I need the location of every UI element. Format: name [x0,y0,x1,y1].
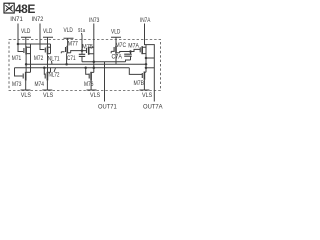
label M7A [128,43,139,50]
label VLS 1 [21,92,32,99]
svg-text:VLD: VLD [111,29,120,36]
dashed block border [9,40,161,91]
wire OUT71 [104,62,106,102]
svg-text:M71: M71 [12,55,22,62]
label M77 [68,41,78,48]
svg-text:IN7A: IN7A [140,17,151,24]
svg-text:OUT71: OUT71 [98,104,117,111]
wire M7C source down [115,53,117,64]
junction dot B-rail [93,67,96,70]
wire rail to OUT7A y58 [146,57,154,59]
label VLD 3 [64,27,73,34]
wire IN7A [145,24,155,102]
svg-text:NL71: NL71 [48,55,60,62]
label VLD 2 [43,28,52,35]
junction dot C7A top [129,50,132,53]
label C71 [67,55,76,62]
wire rail to OUT7A y67.8 [146,67,154,69]
transistor M7A [139,47,141,52]
wire M71 channel to node [25,55,27,72]
transistor M77 [61,52,64,54]
transistor M73 [15,68,23,76]
VLD supply T-bar 3 [64,38,74,46]
VLD supply T-bar 1 [21,37,31,46]
svg-text:M7C: M7C [116,42,127,49]
node line B NL72 y67.8 [15,67,130,69]
VLS T-bar 1 [21,89,31,91]
leader NL72 [54,68,56,72]
svg-text:VLD: VLD [43,28,52,35]
leader NL71 [51,61,54,64]
svg-text:M73: M73 [12,81,22,88]
capacitor C71 [79,54,85,56]
junction dot rail-67.8 [145,67,148,70]
svg-text:IN71: IN71 [10,16,23,23]
svg-text:VLD: VLD [21,28,30,35]
label VLS 4 [142,92,153,99]
label IN71 [10,16,23,23]
svg-text:VLS: VLS [21,92,32,99]
transistor M7B [141,73,143,78]
svg-text:C7A: C7A [112,54,123,61]
svg-text:VLS: VLS [43,92,54,99]
junction dot rail-58 [145,57,148,60]
junction dot M75 gate [81,49,84,52]
wire M7B gate feed [129,68,142,75]
junction dot W1-rail [93,61,96,64]
label VLD 1 [21,28,30,35]
wire M7C drain to M7A gate [120,49,140,52]
wire M7A rail [145,45,147,73]
transistor M75 [86,48,88,53]
svg-text:M7A: M7A [128,43,139,50]
label M73 [12,81,22,88]
label M7C [116,42,127,49]
leader 91a [81,33,84,36]
VLS T-bar 2 [42,89,52,91]
node line A NL71 y64.2 [26,63,146,65]
transistor M7C [111,51,113,53]
label M7B [134,80,145,87]
junction dot A-left [25,63,28,66]
label OUT71 [98,104,117,111]
label M71 [12,55,22,62]
svg-text:C71: C71 [67,55,76,62]
transistor M74 [43,68,46,75]
VLD supply T-bar 2 [43,37,53,46]
svg-text:M7B: M7B [134,80,145,87]
label M74 [35,81,45,88]
label IN72 [32,16,44,23]
wire M73 source to VLS [25,81,27,90]
wire C71 bottom W1 [82,61,126,63]
wire M74 source to VLS [46,81,48,90]
wire 91a [81,36,83,51]
figure title 図48E [4,3,14,13]
label NL72 [49,71,60,78]
wire M7B source to VLS [143,80,145,90]
label M75 [82,43,93,50]
transistor M71 [18,44,23,52]
label VLS 3 [90,92,101,99]
wire IN71 [17,24,19,45]
wire M77 drain to M75 gate [71,51,87,53]
label M72 [34,55,44,62]
label OUT7A [143,104,163,111]
VLS T-bar 3 [87,89,97,91]
svg-text:48E: 48E [15,2,35,16]
VLS T-bar 4 [139,89,149,91]
svg-text:M77: M77 [68,41,78,48]
label VLD 4 [111,29,120,36]
wire M72 channel to node [47,55,49,72]
junction dot B-M74 [43,67,46,70]
wire M77 source down [66,54,68,65]
capacitor C7A [124,54,132,56]
label IN73 [89,17,100,24]
svg-text:M72: M72 [34,55,44,62]
transistor M76 [86,68,89,75]
svg-text:IN73: IN73 [89,17,100,24]
wire M76 source to VLS [90,81,92,90]
node line NL71-top y44 [18,43,51,45]
wire IN73 / M75-M76 drain rail [93,24,95,73]
label C7A [112,54,123,61]
wire M72 drain rail [50,44,52,72]
wire IN72 [40,24,44,50]
svg-text:OUT7A: OUT7A [143,104,163,111]
label NL71 [48,55,60,62]
svg-text:M74: M74 [35,81,45,88]
node A [17,43,20,46]
label M76 [84,81,94,88]
junction dot A-M77 [65,63,68,66]
label VLS 2 [43,92,54,99]
VLD supply T-bar 4 [111,37,121,46]
wire M71 drain rail [30,44,32,72]
transistor M72 [44,48,46,53]
svg-text:VLS: VLS [142,92,153,99]
svg-text:VLD: VLD [64,27,73,34]
label IN7A [140,17,151,24]
junction dot A-right [145,63,148,66]
svg-text:VLS: VLS [90,92,101,99]
junction dot B-M76 [84,67,87,70]
label 91a [78,28,86,34]
svg-text:M76: M76 [84,81,94,88]
svg-text:IN72: IN72 [32,16,44,23]
